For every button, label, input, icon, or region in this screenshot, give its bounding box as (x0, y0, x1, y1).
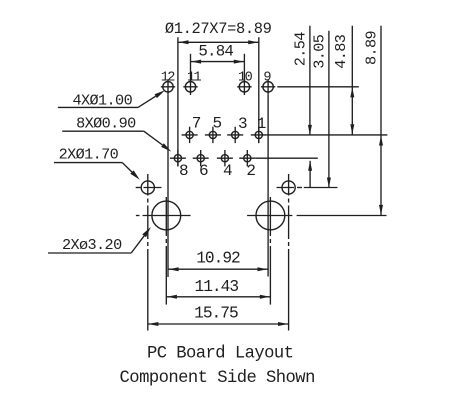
pad 2 (244, 155, 251, 162)
svg-text:5: 5 (212, 114, 221, 132)
pad 12 centerline down (167, 94, 169, 277)
hole 1.70 right (282, 181, 295, 194)
pad 12 (163, 82, 173, 92)
leader to hole 3.20 (131, 236, 144, 253)
pad 10 (239, 82, 249, 92)
svg-text:5.84: 5.84 (198, 42, 233, 60)
dimension line 8.89 right (380, 26, 382, 216)
svg-text:7: 7 (192, 114, 201, 132)
svg-text:8.89: 8.89 (362, 30, 380, 65)
svg-text:12: 12 (161, 71, 176, 86)
pad 1 (255, 131, 262, 138)
svg-text:PC Board Layout: PC Board Layout (147, 345, 293, 364)
underline 8XØ0.90 (62, 130, 144, 132)
pad 9 (263, 82, 273, 92)
dimension line 2.54 (309, 26, 311, 135)
leader to pad 8 (144, 131, 163, 145)
reference line pad 9 row (277, 86, 359, 88)
leader to pad 12 (138, 96, 156, 107)
svg-text:10: 10 (238, 71, 253, 86)
extension line left (pad 8 centerline up) (177, 37, 179, 166)
underline 2XØ1.70 (54, 162, 122, 164)
svg-text:8XØ0.90: 8XØ0.90 (76, 115, 136, 133)
reference line pad 2 row (255, 157, 317, 159)
pad 4 (221, 155, 228, 162)
pad 7 (186, 131, 193, 138)
svg-text:3.05: 3.05 (311, 34, 329, 69)
hole 3.20 right centerline (269, 197, 271, 236)
dimension line 11.43 (166, 296, 270, 298)
extension line right (pad 1 centerline up) (258, 37, 260, 143)
svg-text:4.83: 4.83 (332, 34, 350, 69)
leader to hole 1.70 (122, 163, 132, 173)
dimension line 4.83 (351, 26, 353, 135)
svg-text:6: 6 (199, 162, 208, 180)
hole 3.20 left centerline (165, 197, 167, 236)
pad 3 (232, 131, 239, 138)
pad 8 (174, 155, 181, 162)
pad 9 centerline down (267, 94, 269, 276)
svg-text:11: 11 (187, 71, 202, 86)
svg-text:Component Side Shown: Component Side Shown (120, 369, 315, 388)
hole 1.70 left centerline (147, 174, 149, 196)
svg-text:2.54: 2.54 (292, 32, 310, 67)
svg-text:15.75: 15.75 (194, 305, 238, 323)
dimension line 8.89 top (178, 41, 259, 43)
dimension line 5.84 (191, 61, 245, 63)
svg-text:2Xø3.20: 2Xø3.20 (62, 236, 122, 254)
underline 2Xø3.20 (48, 252, 131, 254)
pad 5 (209, 131, 216, 138)
pad 6 (197, 155, 204, 162)
svg-text:Ø1.27X7=8.89: Ø1.27X7=8.89 (165, 20, 272, 38)
reference line 3.20 row (297, 215, 387, 217)
reference line 1.70 row (304, 187, 338, 189)
svg-text:2: 2 (246, 162, 255, 180)
svg-text:4: 4 (223, 162, 232, 180)
svg-text:3: 3 (238, 115, 247, 133)
svg-text:8: 8 (179, 162, 188, 180)
hole 3.20 right (256, 201, 285, 230)
svg-text:10.92: 10.92 (196, 249, 240, 267)
extension line pad 10 centerline (243, 54, 245, 95)
hole 1.70 right centerline (288, 174, 290, 196)
hole 1.70 left (141, 181, 154, 194)
dimension line 3.05 (328, 31, 330, 188)
svg-text:2XØ1.70: 2XØ1.70 (59, 146, 119, 164)
dimension line 10.92 (168, 268, 268, 270)
svg-text:11.43: 11.43 (195, 278, 239, 296)
extension line pad 11 centerline (190, 54, 192, 95)
underline 4XØ1.00 (58, 106, 138, 108)
svg-text:1: 1 (257, 115, 266, 133)
pad 11 (185, 82, 195, 92)
reference line pad 1 row (267, 134, 388, 136)
hole 3.20 left (152, 201, 181, 230)
dimension line 15.75 (148, 323, 289, 325)
